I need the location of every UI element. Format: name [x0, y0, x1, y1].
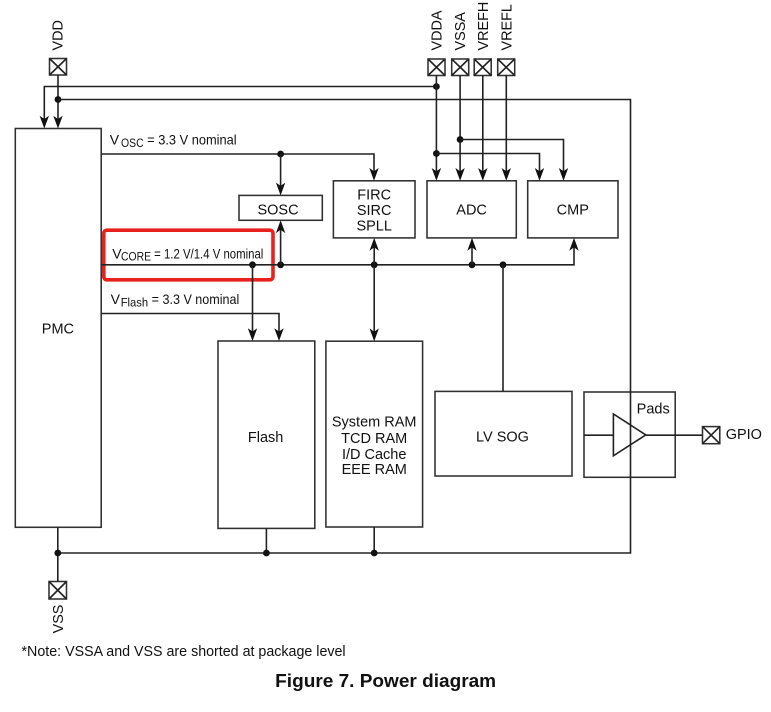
wire VCORE rail to CMP bottom: [101, 238, 579, 265]
svg-text:= 1.2 V/1.4 V nominal: = 1.2 V/1.4 V nominal: [151, 245, 263, 261]
block FIRC/SIRC/SPLL: [333, 181, 415, 238]
junction dot VDDA top: [433, 83, 440, 90]
pin VSS: [49, 582, 67, 600]
label FIRC SIRC SPLL: [356, 187, 391, 234]
rail label VFlash: [111, 291, 240, 309]
wire VREFL stem into ADC: [502, 76, 511, 181]
junction dot VCORE SOSC: [277, 261, 284, 268]
svg-text:= 3.3 V nominal: = 3.3 V nominal: [144, 132, 237, 148]
buffer triangle in Pads: [613, 414, 645, 456]
svg-text:ADC: ADC: [456, 203, 487, 219]
junction dot bottom Flash: [263, 550, 270, 557]
svg-text:*Note: VSSA and VSS are shorte: *Note: VSSA and VSS are shorted at packa…: [22, 644, 346, 660]
wire VCORE drop to LV SOG: [502, 265, 504, 392]
svg-text:OSC: OSC: [121, 136, 144, 150]
svg-text:VREFL: VREFL: [499, 4, 515, 50]
wire VDDA stem into ADC: [432, 76, 441, 181]
red highlight box around VCORE label: [104, 230, 273, 280]
junction dot VOSC/SOSC: [277, 151, 284, 158]
pin VSSA: [452, 59, 469, 76]
svg-text:CORE: CORE: [121, 250, 151, 264]
junction dot VDD: [55, 96, 62, 103]
junction dot VCORE ADC: [469, 261, 476, 268]
wire VSSA stem into ADC: [455, 76, 464, 181]
svg-text:CMP: CMP: [557, 203, 589, 219]
rail label VOSC: [110, 132, 237, 151]
svg-text:Flash: Flash: [248, 430, 283, 446]
wire VDDA branch to CMP: [436, 154, 544, 181]
pin VREFL: [498, 59, 515, 76]
wire VDDA to PMC (top rail): [40, 87, 437, 129]
svg-text:GPIO: GPIO: [726, 427, 762, 443]
wire VCORE up to SOSC: [276, 220, 285, 264]
wire VCORE drop to RAM: [370, 265, 379, 341]
wire ring VDD right side down to bottom rail: [58, 100, 631, 554]
wire Pads input: [584, 434, 613, 436]
svg-text:Pads: Pads: [637, 402, 670, 418]
block CMP: [528, 181, 618, 238]
svg-text:VDDA: VDDA: [429, 10, 445, 50]
svg-text:SIRC: SIRC: [357, 203, 392, 219]
wire SOSC drop: [276, 154, 285, 195]
svg-text:= 3.3 V nominal: = 3.3 V nominal: [148, 291, 239, 307]
svg-text:Flash: Flash: [121, 296, 149, 310]
wire VCORE up to FIRC: [370, 238, 379, 265]
junction dot VCORE FIRC/RAM: [371, 261, 378, 268]
svg-text:PMC: PMC: [42, 321, 74, 337]
svg-text:VDD: VDD: [51, 20, 67, 50]
wire VFlash rail to Flash: [101, 314, 284, 342]
block LV SOG: [435, 391, 572, 476]
svg-text:Figure 7. Power diagram: Figure 7. Power diagram: [275, 671, 496, 691]
block ADC: [427, 181, 516, 238]
svg-text:VSSA: VSSA: [453, 12, 469, 51]
wire RAM bottom stem: [373, 527, 375, 553]
block System RAM: [326, 341, 423, 527]
junction dot bottom RAM: [371, 550, 378, 557]
pin VDD: [50, 59, 67, 76]
wire PMC bottom to VSS pin: [57, 527, 59, 581]
wire VCORE drop to Flash: [248, 265, 257, 341]
block SOSC: [239, 195, 322, 220]
svg-text:I/D Cache: I/D Cache: [342, 447, 406, 463]
wire VDD stem into PMC: [53, 75, 62, 129]
wire VSSA branch to CMP: [460, 140, 568, 181]
junction dot bottom PMC: [54, 550, 61, 557]
wire VREFH stem into ADC: [478, 76, 487, 181]
pin VDDA: [428, 59, 445, 76]
junction dot VCORE Flash: [249, 261, 256, 268]
label System RAM / TCD RAM / I/D Cache / EEE RAM: [332, 415, 417, 478]
wire VCORE up to ADC: [467, 238, 476, 265]
block Pads: [584, 392, 675, 477]
junction dot VSSA branch: [457, 136, 464, 143]
junction dot VCORE LVSOG: [500, 261, 507, 268]
svg-text:V: V: [110, 132, 120, 148]
pin GPIO: [703, 427, 720, 444]
svg-text:TCD RAM: TCD RAM: [341, 431, 407, 447]
svg-text:EEE RAM: EEE RAM: [342, 462, 407, 478]
svg-text:VSS: VSS: [51, 605, 67, 634]
rail label VCORE: [112, 245, 263, 263]
svg-text:LV SOG: LV SOG: [476, 429, 529, 445]
pin VREFH: [474, 59, 491, 76]
block PMC: [15, 129, 101, 528]
wire VOSC rail to FIRC: [101, 154, 379, 181]
svg-text:SPLL: SPLL: [356, 219, 391, 235]
block Flash: [218, 341, 315, 528]
svg-text:VREFH: VREFH: [476, 2, 492, 51]
svg-text:V: V: [111, 291, 121, 307]
wire Pads output to GPIO: [646, 434, 703, 436]
junction dot VDDA branch: [433, 150, 440, 157]
svg-text:SOSC: SOSC: [257, 202, 298, 218]
svg-text:FIRC: FIRC: [357, 187, 391, 203]
svg-text:System RAM: System RAM: [332, 415, 417, 431]
wire Flash bottom stem: [265, 528, 267, 553]
